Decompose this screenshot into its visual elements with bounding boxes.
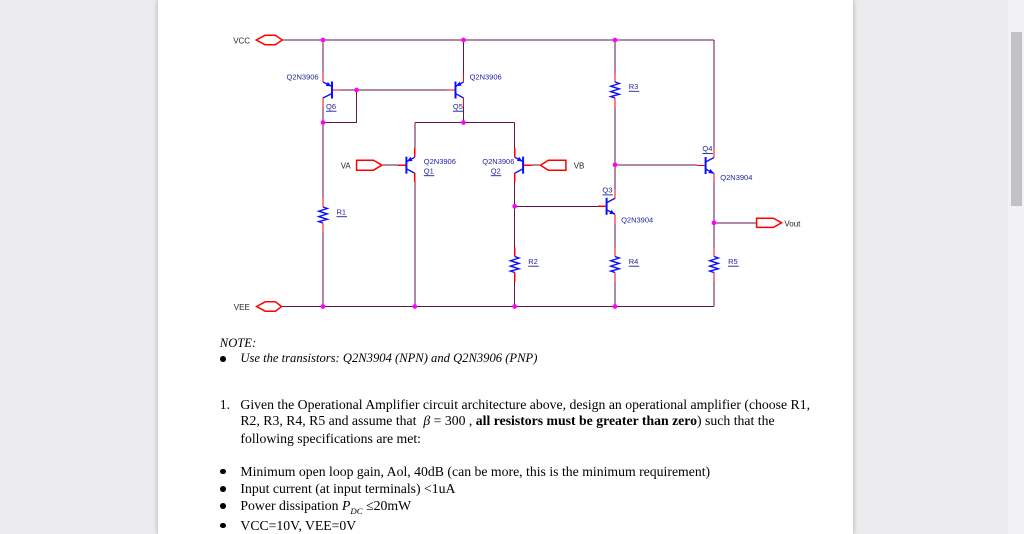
- svg-text:VEE: VEE: [234, 303, 250, 312]
- svg-text:Q2N3904: Q2N3904: [720, 173, 752, 182]
- svg-text:Q2: Q2: [491, 166, 501, 175]
- svg-text:Q5: Q5: [453, 102, 463, 111]
- svg-text:VB: VB: [574, 161, 585, 170]
- svg-text:Q2N3906: Q2N3906: [470, 72, 502, 81]
- svg-text:Q4: Q4: [702, 144, 712, 153]
- svg-text:R5: R5: [728, 257, 738, 266]
- svg-text:Q3: Q3: [602, 186, 612, 195]
- svg-text:VCC: VCC: [233, 36, 250, 45]
- svg-text:Q6: Q6: [326, 102, 336, 111]
- svg-text:Q1: Q1: [424, 166, 434, 175]
- svg-text:Vout: Vout: [784, 220, 801, 229]
- svg-text:Q2N3904: Q2N3904: [621, 216, 653, 225]
- svg-text:Q2N3906: Q2N3906: [482, 157, 514, 166]
- svg-text:R1: R1: [337, 207, 347, 216]
- svg-text:R4: R4: [629, 257, 639, 266]
- svg-text:Q2N3906: Q2N3906: [287, 72, 319, 81]
- svg-text:Q2N3906: Q2N3906: [424, 157, 456, 166]
- svg-text:VA: VA: [341, 161, 352, 170]
- svg-text:R2: R2: [528, 257, 538, 266]
- svg-text:R3: R3: [629, 82, 639, 91]
